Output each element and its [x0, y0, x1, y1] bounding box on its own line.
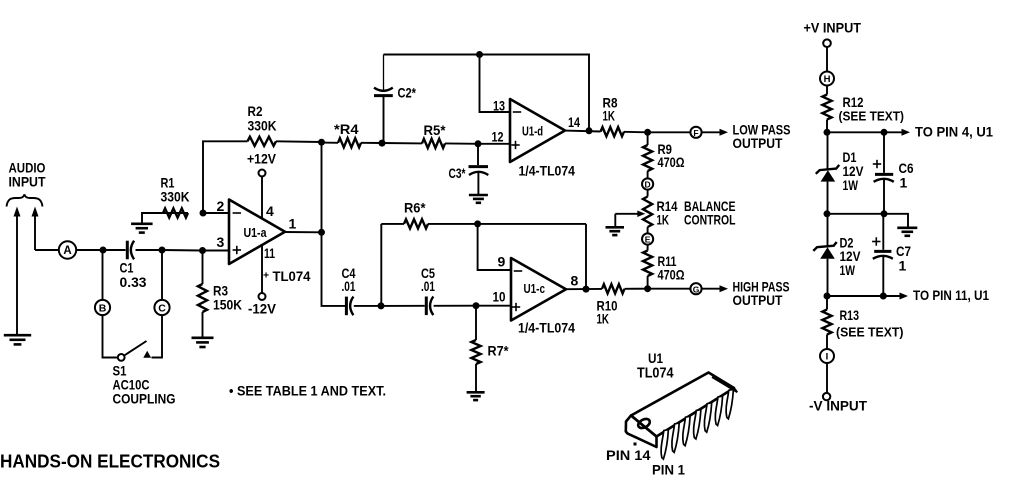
ground input: [4, 335, 31, 344]
to pin 4 arrow: [884, 129, 910, 136]
svg-text:HANDS-ON ELECTRONICS: HANDS-ON ELECTRONICS: [0, 451, 220, 472]
junction mid rail right: [881, 210, 888, 217]
wire to pin 9: [478, 224, 511, 270]
junction high pass: [644, 285, 651, 292]
resistor R11: [643, 251, 652, 277]
svg-text:CONTROL: CONTROL: [684, 212, 736, 228]
wire: [381, 223, 404, 225]
node G: [690, 283, 701, 294]
U1-d plus: [511, 144, 519, 146]
wire: [162, 249, 203, 252]
wire: [826, 120, 828, 133]
resistor R5: [422, 139, 445, 148]
terminal +V: [823, 39, 831, 71]
wire U1-c output: [566, 288, 602, 290]
svg-text:PIN 14: PIN 14: [606, 447, 651, 463]
svg-text:1: 1: [289, 216, 297, 232]
wire: [136, 249, 163, 251]
zener diode D2: [813, 214, 836, 296]
wire: [445, 142, 478, 144]
IC pin 7: [726, 389, 733, 419]
IC pin 1: [661, 430, 668, 460]
capacitor C2: [374, 88, 393, 96]
svg-text:.01: .01: [421, 278, 435, 294]
resistor R2: [248, 137, 277, 146]
ground C3: [469, 195, 488, 203]
junction C3: [475, 140, 482, 147]
R14 wiper: [615, 211, 645, 227]
node I: [820, 349, 834, 363]
U1-c plus: [512, 306, 520, 308]
wire node C to switch contact: [152, 315, 163, 357]
wire C2 bottom: [383, 96, 385, 143]
wire U1-c feedback vertical: [585, 224, 587, 289]
svg-text:1K: 1K: [657, 212, 670, 228]
wire: [826, 296, 828, 310]
ground R1: [131, 224, 153, 233]
resistor R12: [822, 95, 831, 120]
svg-text:330K: 330K: [248, 118, 277, 134]
junction pin 2: [200, 210, 207, 217]
svg-text:R7*: R7*: [488, 343, 509, 359]
junction +rail: [824, 129, 831, 136]
resistor R7: [471, 340, 480, 364]
wire +rail: [827, 131, 884, 133]
wire: [202, 312, 204, 337]
junction U1-a output: [318, 229, 325, 236]
input signal arrow: [32, 207, 59, 251]
TL074 note label: [263, 268, 311, 284]
svg-text:2: 2: [217, 198, 225, 214]
capacitor C1: [127, 241, 134, 260]
svg-text:-V INPUT: -V INPUT: [809, 398, 867, 414]
wire: [103, 249, 126, 251]
wire: [322, 142, 339, 144]
capacitor C4: [346, 297, 353, 316]
supply +12V terminal: [259, 170, 266, 218]
svg-text:*R4: *R4: [334, 121, 359, 137]
svg-text:13: 13: [493, 98, 505, 114]
junction R7: [473, 302, 480, 309]
svg-text:1W: 1W: [843, 177, 859, 193]
svg-text:+: +: [263, 270, 269, 282]
wire mid rail to ground: [827, 214, 908, 227]
wire: [163, 212, 188, 214]
svg-text:3: 3: [217, 234, 225, 250]
svg-text:4: 4: [266, 203, 274, 219]
wire U1-a output: [285, 231, 322, 233]
svg-text:1/4-TL074: 1/4-TL074: [519, 163, 576, 179]
wire: [647, 190, 649, 197]
svg-text:470Ω: 470Ω: [658, 267, 685, 283]
wire: [276, 140, 322, 143]
svg-text:1: 1: [899, 258, 907, 274]
wire R6 to output: [428, 223, 586, 225]
resistor R6: [404, 219, 428, 228]
junction low pass: [644, 129, 651, 136]
wire: [202, 251, 204, 285]
IC pin 5: [704, 403, 711, 433]
svg-text:+12V: +12V: [247, 151, 277, 167]
wire U1-d output: [565, 130, 601, 133]
wire -rail: [827, 295, 883, 297]
svg-text:(SEE TEXT): (SEE TEXT): [836, 325, 904, 340]
high pass output arrow: [702, 285, 728, 292]
wire: [475, 364, 477, 391]
U1-a minus: [233, 212, 241, 214]
wire C2 top: [383, 55, 385, 91]
wire: [826, 335, 828, 350]
wire: [625, 288, 648, 290]
resistor R3: [198, 284, 207, 312]
svg-text:COUPLING: COUPLING: [113, 391, 176, 407]
wire to R7: [475, 306, 477, 340]
node C: [154, 300, 169, 315]
U1-c minus: [514, 270, 522, 272]
svg-text:1K: 1K: [603, 108, 616, 124]
op-amp U1-d: [510, 99, 565, 162]
resistor R1: [163, 208, 188, 217]
supply -12V terminal: [259, 246, 266, 300]
IC pin 2: [672, 423, 679, 453]
svg-text:A: A: [63, 245, 71, 257]
wire to C4: [322, 232, 346, 306]
svg-text:INPUT: INPUT: [9, 174, 46, 190]
junction: [100, 247, 107, 254]
resistor R4: [338, 138, 361, 147]
svg-text:1K: 1K: [597, 311, 610, 327]
IC pin 4: [694, 410, 701, 440]
low pass output arrow: [702, 129, 728, 136]
wire to node F: [648, 131, 691, 133]
ground mid rail: [897, 228, 917, 236]
ground R14 wiper: [606, 227, 625, 235]
wire: [354, 305, 381, 307]
node A: [59, 241, 76, 258]
resistor R13: [822, 310, 831, 335]
capacitor C5: [426, 297, 433, 316]
svg-text:1: 1: [900, 175, 908, 191]
svg-text:TL074: TL074: [273, 268, 311, 284]
wire C4-C5 junction to R6: [380, 224, 382, 306]
input ground-side arrow: [14, 207, 21, 335]
svg-text:PIN 1: PIN 1: [652, 462, 685, 478]
resistor R9: [643, 145, 652, 171]
terminal -V: [823, 363, 830, 400]
junction C6 top: [881, 129, 888, 136]
audio input label: [9, 160, 46, 190]
node E: [642, 233, 653, 244]
switch S1 arm: [124, 341, 146, 356]
svg-text:B: B: [99, 302, 107, 314]
junction U1-c output: [583, 286, 590, 293]
wire: [647, 132, 649, 145]
svg-text:R6*: R6*: [404, 200, 426, 216]
svg-text:C2*: C2*: [398, 85, 417, 101]
junction U1-d output: [586, 127, 593, 134]
junction pin 9 tap: [474, 220, 481, 227]
wire: [647, 276, 649, 289]
svg-text:E: E: [645, 235, 651, 245]
wire: [361, 142, 382, 144]
svg-text:1W: 1W: [840, 262, 856, 278]
C6 plus sign: [873, 160, 881, 168]
svg-text:(SEE TEXT): (SEE TEXT): [839, 109, 905, 124]
junction: [199, 247, 206, 254]
IC pin 3: [683, 416, 690, 446]
wire to node G: [648, 288, 691, 290]
wire to node B: [102, 250, 104, 300]
svg-text:470Ω: 470Ω: [658, 154, 685, 170]
wire: [434, 305, 476, 307]
wire node B to switch: [103, 315, 118, 357]
svg-text:R13: R13: [840, 307, 860, 323]
resistor R10: [602, 284, 625, 293]
svg-text:10: 10: [493, 289, 506, 305]
wire: [647, 245, 649, 251]
resistor R8: [601, 127, 625, 136]
svg-text:U1-a: U1-a: [244, 225, 268, 240]
wire: [381, 305, 425, 307]
junction pin 13 tap: [476, 51, 483, 58]
U1-d minus: [513, 111, 521, 113]
node B: [95, 300, 110, 315]
wire: [76, 249, 103, 251]
wire to R2: [203, 141, 248, 213]
wire: [647, 227, 649, 233]
wire: [624, 131, 648, 134]
svg-text:R5*: R5*: [424, 122, 447, 138]
wire: [647, 171, 649, 178]
svg-text:9: 9: [498, 254, 506, 270]
svg-text:• SEE TABLE 1 AND TEXT.: • SEE TABLE 1 AND TEXT.: [229, 383, 386, 399]
svg-text:I: I: [826, 351, 829, 362]
wire: [826, 86, 828, 95]
svg-text:-12V: -12V: [248, 301, 277, 317]
junction mid rail left: [824, 210, 831, 217]
junction: [159, 247, 166, 254]
junction R2 output: [318, 139, 325, 146]
capacitor C6: [874, 132, 894, 214]
svg-text:OUTPUT: OUTPUT: [733, 292, 783, 308]
junction C4-C5: [378, 302, 385, 309]
wire to pin 13: [480, 55, 511, 113]
svg-text:U1-c: U1-c: [524, 281, 546, 296]
wire feedback vertical: [321, 142, 323, 232]
capacitor C3: [469, 144, 489, 194]
ground R3: [192, 338, 214, 347]
node F: [690, 127, 701, 138]
svg-text:C3*: C3*: [449, 165, 466, 181]
svg-text:12: 12: [492, 129, 504, 145]
svg-text:0.33: 0.33: [120, 274, 147, 290]
svg-text:330K: 330K: [161, 189, 190, 205]
svg-text:150K: 150K: [213, 297, 242, 313]
junction -rail right: [880, 293, 887, 300]
svg-text:TO PIN 4, U1: TO PIN 4, U1: [915, 124, 993, 140]
op-amp U1-c: [511, 258, 566, 321]
node D: [642, 178, 653, 189]
wire to pin 12: [478, 143, 510, 145]
svg-text:+V INPUT: +V INPUT: [804, 20, 862, 36]
potentiometer R14: [643, 197, 652, 228]
wire: [382, 142, 422, 144]
node H: [820, 72, 834, 86]
wire U1-d feedback: [384, 55, 590, 131]
svg-text:TL074: TL074: [637, 365, 674, 382]
svg-text:D: D: [645, 180, 651, 190]
wire pin 2: [203, 212, 229, 214]
switch S1 contact arrow: [143, 351, 151, 358]
svg-text:14: 14: [568, 114, 580, 130]
op-amp U1-a: [229, 200, 285, 265]
svg-text:TO PIN 11, U1: TO PIN 11, U1: [913, 287, 989, 303]
junction C2: [379, 140, 386, 147]
wire R1 to ground: [142, 213, 163, 223]
svg-text:11: 11: [264, 245, 275, 261]
svg-text:OUTPUT: OUTPUT: [733, 135, 783, 151]
junction -rail left: [824, 293, 831, 300]
input brace: [7, 194, 43, 206]
svg-text:C: C: [158, 302, 166, 314]
IC package U1 TL074: [626, 373, 737, 448]
switch S1 pivot: [118, 354, 125, 361]
svg-text:H: H: [824, 74, 831, 85]
zener diode D1: [816, 132, 839, 214]
svg-text:8: 8: [571, 273, 579, 289]
to pin 11 arrow: [883, 293, 908, 300]
C7 plus sign: [872, 237, 880, 245]
pin 14 pointer dot: [634, 443, 637, 446]
svg-text:F: F: [693, 128, 698, 138]
svg-text:G: G: [693, 284, 700, 294]
svg-text:U1-d: U1-d: [522, 124, 543, 139]
svg-text:1/4-TL074: 1/4-TL074: [518, 320, 575, 336]
capacitor C7: [873, 214, 893, 296]
ground R7: [467, 392, 485, 400]
U1-a plus: [233, 249, 241, 251]
svg-text:.01: .01: [342, 278, 356, 294]
IC pin 6: [715, 396, 722, 426]
wire to pin 3: [203, 250, 230, 252]
wire to node C: [161, 250, 163, 300]
wire to pin 10: [476, 305, 511, 307]
